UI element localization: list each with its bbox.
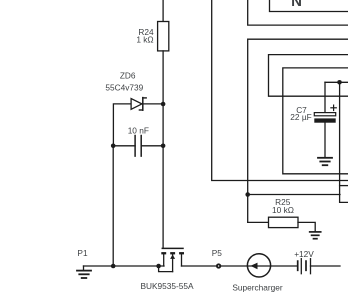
capacitor C7: [314, 105, 336, 123]
wire supercharger to battery: [271, 265, 298, 267]
current source Supercharger: [247, 254, 270, 277]
node diode junction: [161, 102, 166, 107]
capacitor 10 nF: [135, 136, 141, 157]
terminal P5: [217, 264, 220, 267]
wire C7 top rail: [325, 81, 348, 83]
svg-text:10 nF: 10 nF: [128, 126, 149, 136]
node cap right junction: [161, 144, 166, 149]
svg-text:1 kΩ: 1 kΩ: [136, 35, 153, 45]
transistor Q1 BUK9535-55A: [159, 248, 184, 271]
ground C7: [318, 158, 332, 165]
wire left branch down to rail: [112, 146, 114, 266]
wire R24 bottom to gate node: [162, 51, 164, 248]
wire right vertical: [340, 82, 348, 202]
node source junction: [156, 264, 161, 269]
svg-text:10 kΩ: 10 kΩ: [272, 205, 294, 215]
svg-text:Supercharger: Supercharger: [232, 283, 283, 293]
wire bottom rail: [84, 265, 165, 267]
node top right junction: [337, 80, 342, 85]
svg-text:BUK9535-55A: BUK9535-55A: [140, 281, 194, 291]
wire cap row left: [113, 145, 135, 147]
wire C7 bottom lead: [324, 123, 326, 158]
wire zener cathode to node: [143, 103, 163, 105]
wire zener row left: [113, 104, 131, 146]
wire cap row right: [141, 145, 163, 147]
wire P5 to supercharger: [221, 265, 247, 267]
wire top stub at x=248: [248, 0, 348, 25]
wire from right edge down to R25: [248, 39, 348, 222]
svg-text:22 µF: 22 µF: [290, 112, 311, 122]
wire R25 left lead: [248, 221, 269, 223]
svg-text:N: N: [291, 0, 302, 10]
wire C7 top lead: [324, 82, 326, 112]
wire drain to P5: [182, 265, 216, 267]
svg-text:P1: P1: [77, 248, 88, 258]
wire nested box 3: [283, 68, 348, 174]
node cap left junction: [111, 144, 116, 149]
resistor R25: [269, 217, 299, 227]
wire top lead of R24: [162, 0, 164, 22]
svg-text:55C4v739: 55C4v739: [105, 83, 143, 93]
svg-text:+12V: +12V: [294, 249, 314, 259]
battery +12V: [298, 259, 311, 274]
resistor R24: [158, 22, 169, 51]
wire battery to right: [311, 265, 341, 267]
svg-text:ZD6: ZD6: [120, 70, 136, 80]
zener diode ZD6: [131, 98, 146, 111]
node R25 feed: [248, 194, 340, 196]
wire nested box N: [270, 0, 348, 12]
ground P1: [77, 266, 91, 278]
wire R25 right lead: [298, 222, 315, 231]
node rail left junction: [111, 264, 116, 269]
svg-text:P5: P5: [212, 248, 223, 258]
wire long vertical from top to row: [212, 0, 348, 181]
ground R25: [310, 232, 321, 239]
wire nested box 2: [269, 55, 348, 97]
wire right stub: [340, 185, 348, 187]
node R25 junction: [245, 192, 250, 197]
